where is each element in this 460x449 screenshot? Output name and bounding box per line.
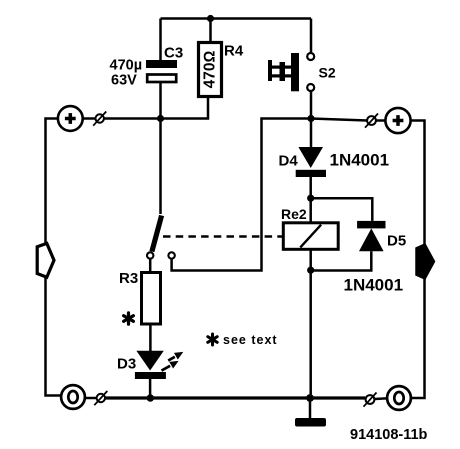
wire top rail: [161, 17, 312, 20]
connector right bottom: [364, 393, 377, 407]
wire R3 to D3 lead: [149, 324, 152, 351]
svg-text:R3: R3: [119, 270, 138, 287]
node junction left rail: [157, 115, 164, 122]
connector left bottom: [94, 391, 107, 405]
note see text: [208, 334, 217, 345]
wire bottom right connector to 0: [374, 397, 386, 400]
wire bottom rail: [105, 396, 365, 399]
wire R3 top lead: [149, 260, 152, 273]
wire bottom left 0 to connector: [85, 397, 96, 400]
wire ground lead: [309, 398, 312, 419]
input arrow left hollow: [37, 243, 54, 277]
node junction D3 bottom rail: [147, 394, 154, 401]
ground: [295, 418, 326, 427]
wire D5 bottom branch: [311, 251, 372, 270]
node junction ground bottom rail: [306, 394, 314, 402]
asterisk R3: [124, 313, 134, 324]
svg-text:1N4001: 1N4001: [330, 151, 390, 170]
relay Re2: [283, 223, 338, 250]
wire left plus to connector: [83, 117, 96, 120]
node junction S2 bottom: [307, 115, 314, 122]
wire switch vertical: [159, 119, 162, 215]
wire D4 cathode to relay junction: [309, 177, 312, 198]
svg-text:470Ω: 470Ω: [202, 51, 219, 89]
node junction D4 relay D5: [307, 195, 314, 202]
wire D5 top branch: [311, 198, 373, 221]
svg-text:914108-11b: 914108-11b: [350, 427, 428, 443]
switch S2 pushbutton: [268, 53, 314, 91]
wire C3 bottom lead: [159, 83, 162, 119]
wire contact2 to S2 junction: [172, 119, 311, 271]
diode D4: [296, 147, 326, 177]
wire R4 top lead: [209, 19, 212, 43]
svg-text:D5: D5: [387, 233, 406, 250]
connector left top: [93, 112, 106, 126]
wire left plus rail into R4 bottom: [104, 97, 208, 119]
wire right rail from S2 junction to right connector: [311, 119, 367, 121]
svg-text:C3: C3: [164, 45, 183, 62]
svg-text:S2: S2: [319, 65, 336, 81]
terminal 0 right: [387, 386, 411, 410]
relay contact switch arm: [147, 216, 175, 259]
svg-text:Re2: Re2: [281, 206, 307, 222]
svg-text:D4: D4: [279, 153, 299, 170]
wire S2 bottom lead down to D4: [310, 92, 313, 147]
node junction top rail R4: [207, 15, 214, 22]
wire dashed relay actuation line: [163, 235, 283, 238]
wire C3 top lead: [159, 19, 162, 61]
svg-text:D3: D3: [117, 356, 136, 373]
wire relay bottom lead: [309, 249, 312, 270]
terminal plus left: [58, 106, 83, 131]
wire relay top lead: [309, 198, 312, 223]
wire S2 top lead: [310, 19, 313, 53]
resistor R4: [199, 43, 222, 97]
node junction relay bottom: [307, 267, 314, 274]
svg-text:63V: 63V: [111, 73, 137, 89]
wire right connector to plus: [376, 119, 386, 122]
wire relay junction down to bottom rail: [309, 270, 312, 398]
wire right frame: [411, 121, 425, 399]
svg-text:see text: see text: [223, 333, 278, 347]
diode D5: [357, 221, 385, 251]
svg-text:470µ: 470µ: [110, 58, 143, 74]
LED D3: [135, 351, 182, 379]
connector right top: [365, 114, 378, 128]
capacitor C3: [146, 60, 177, 82]
terminal plus right: [385, 108, 410, 133]
wire left frame: [46, 119, 61, 396]
output arrow right solid: [416, 244, 435, 279]
svg-text:1N4001: 1N4001: [344, 276, 404, 295]
terminal 0 left: [61, 385, 85, 409]
resistor R3: [142, 273, 161, 325]
wire D3 to bottom rail: [149, 379, 152, 398]
svg-text:R4: R4: [224, 43, 244, 60]
